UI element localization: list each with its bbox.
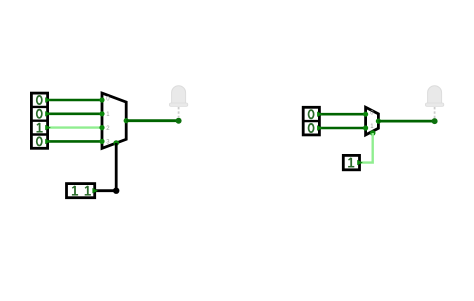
node: U2 input pin 0 — [363, 112, 368, 117]
value label B = 1 (low bit) — [85, 186, 91, 195]
U1 pin label 3 — [106, 140, 110, 146]
node: wire end at LED D1 — [176, 118, 182, 124]
wire from input A1 to mux U1 pin 1 — [48, 113, 103, 116]
node: output of A2 — [45, 125, 51, 130]
U2 pin label 0 — [370, 110, 374, 116]
value label A3 = 0 — [37, 137, 42, 145]
value label A0 = 0 — [37, 96, 42, 104]
node: U1 output pin — [124, 118, 129, 123]
value label C0 = 0 — [309, 110, 314, 118]
node: U1 select pin — [113, 140, 119, 146]
value label A1 = 0 — [37, 110, 42, 118]
node: output of input D — [357, 160, 363, 165]
node: U2 output pin — [376, 119, 381, 124]
node: output of input B — [92, 188, 98, 193]
LED D1 (off) — [169, 86, 187, 118]
wire U2 select (value 1, light green, from select node down and left to input D) — [360, 133, 373, 163]
node: wire end at LED D2 — [432, 118, 438, 124]
wire from input C1 to mux U2 pin 1 — [319, 127, 365, 130]
wire from input A0 to mux U1 pin 0 — [48, 99, 103, 102]
multiplexer U2 (2-to-1) — [366, 107, 379, 135]
U1 pin label 0 — [106, 96, 110, 102]
node: U1 input pin 0 — [99, 97, 104, 102]
U2 pin label 1 — [370, 124, 374, 130]
node: U1 input pin 3 — [99, 139, 104, 144]
node: U1 input pin 2 — [99, 125, 104, 130]
node: output of C0 — [317, 112, 323, 117]
junction node at select wire corner — [113, 188, 119, 194]
input stack C (2 one-bit inputs: 0,0) — [303, 107, 319, 135]
value label C1 = 0 — [309, 124, 314, 132]
wire U1 select (from select node down and left to input B) — [95, 143, 116, 191]
wire U2 output to LED D2 — [378, 120, 434, 123]
input stack A (4 one-bit inputs: 0,0,1,0) — [31, 93, 47, 148]
value label A2 = 1 — [37, 123, 43, 132]
multiplexer U1 (4-to-1) — [102, 93, 126, 148]
node: U2 input pin 1 — [363, 125, 368, 130]
node: output of A1 — [45, 111, 51, 116]
input B (2-bit select, value 11) — [67, 184, 95, 198]
node: output of A0 — [45, 97, 51, 102]
value label B = 1 (high bit) — [72, 186, 78, 195]
wire U1 output to LED D1 — [126, 119, 178, 122]
U1 pin label 2 — [106, 126, 110, 132]
LED D2 (off) — [425, 86, 443, 118]
input D (1-bit select, value 1) — [343, 155, 359, 169]
value label D = 1 — [348, 158, 354, 167]
wire from input A2 (value 1) to mux U1 pin 2 — [48, 126, 103, 128]
node: output of A3 — [45, 139, 51, 144]
node: U2 select pin — [370, 130, 376, 136]
wire from input C0 to mux U2 pin 0 — [319, 113, 365, 116]
U1 pin label 1 — [106, 112, 110, 118]
node: output of C1 — [317, 125, 323, 130]
node: U1 input pin 1 — [99, 111, 104, 116]
wire from input A3 to mux U1 pin 3 — [48, 140, 103, 143]
